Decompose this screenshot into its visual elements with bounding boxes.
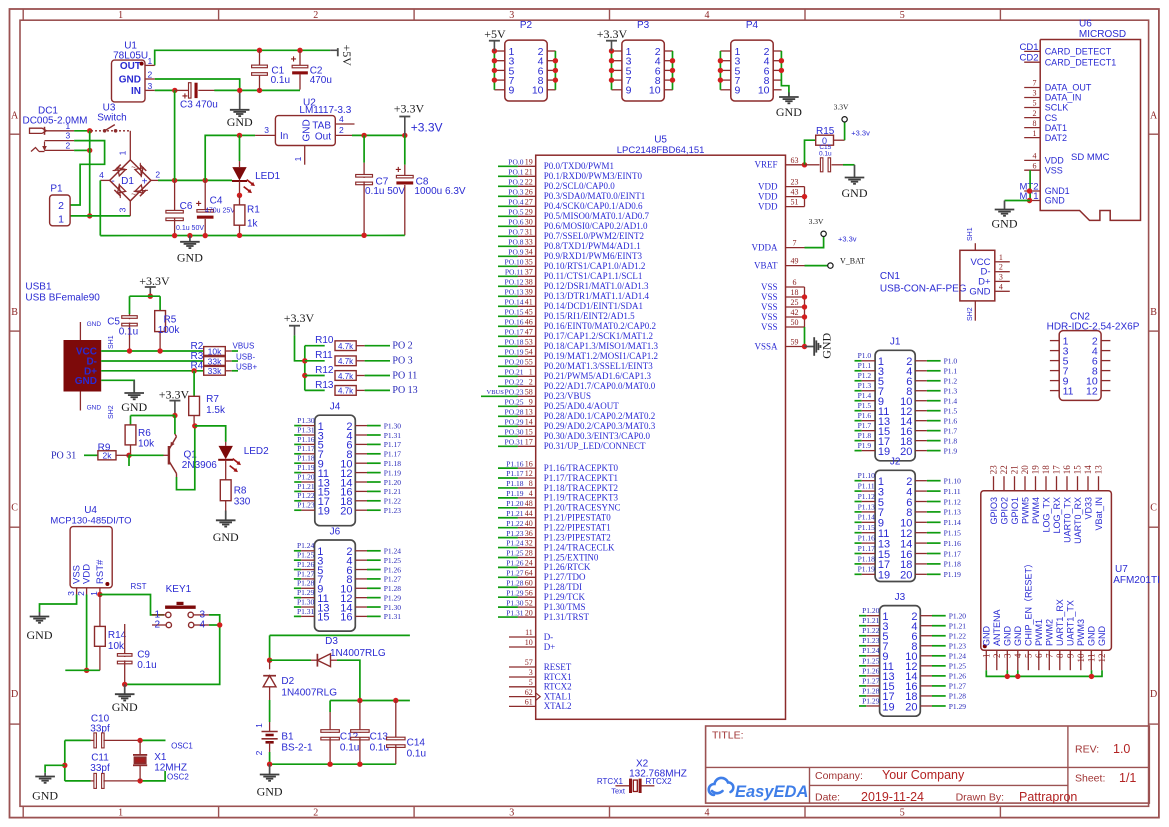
wire U2 In row — [240, 134, 256, 136]
capacitor C8 1000u 6.3V polarized — [404, 135, 406, 164]
junction U7 gnd pin11 — [1089, 674, 1094, 679]
svg-text:PO.23: PO.23 — [505, 388, 524, 397]
svg-text:P0.4/SCK0/CAP0.1/AD0.6: P0.4/SCK0/CAP0.1/AD0.6 — [544, 201, 643, 211]
wire C4 col up to U2 In row — [205, 135, 239, 180]
svg-text:28: 28 — [525, 549, 533, 558]
svg-text:P0.10/RTS1/CAP1.0/AD1.2: P0.10/RTS1/CAP1.0/AD1.2 — [544, 261, 646, 271]
wire C15 to GND — [843, 164, 855, 166]
junction D1 out C6 — [172, 178, 177, 183]
U7 pin 6 PWM1 — [1038, 650, 1040, 670]
svg-text:12: 12 — [1086, 386, 1098, 398]
svg-text:In: In — [280, 131, 288, 142]
svg-text:R1: R1 — [247, 205, 260, 216]
svg-text:P1.19: P1.19 — [944, 570, 962, 579]
svg-text:17: 17 — [525, 438, 533, 447]
svg-text:P1.2: P1.2 — [944, 377, 958, 386]
svg-text:P0.8/TXD1/PWM4/AD1.1: P0.8/TXD1/PWM4/AD1.1 — [544, 241, 641, 251]
svg-text:3: 3 — [509, 10, 514, 21]
junction VREF node — [802, 162, 807, 167]
svg-text:P1.27: P1.27 — [506, 569, 524, 578]
svg-text:R11: R11 — [315, 350, 333, 361]
U7 pin 13 VBat_IN — [1098, 476, 1100, 491]
DC1 pin 3 — [45, 140, 75, 142]
U7 pin 17 LOG_RX — [1056, 476, 1058, 491]
wire +5V rail — [155, 50, 330, 65]
svg-text:PWM2: PWM2 — [1045, 619, 1055, 646]
wire pullup bus — [304, 346, 306, 391]
svg-text:J1: J1 — [890, 337, 901, 348]
svg-text:11: 11 — [1063, 386, 1074, 398]
svg-text:PWM1: PWM1 — [1034, 619, 1044, 646]
junction In row LED1 — [237, 133, 242, 138]
svg-text:4: 4 — [200, 620, 206, 631]
svg-text:2019-11-24: 2019-11-24 — [861, 790, 924, 804]
svg-text:Company:: Company: — [815, 770, 863, 782]
wire U1 pin3 row to C2 — [155, 89, 175, 91]
junction VCC R5 — [157, 348, 162, 353]
capacitor C1 0.1u — [259, 50, 261, 65]
svg-text:470u 25V: 470u 25V — [205, 207, 235, 214]
svg-text:P1.4: P1.4 — [944, 397, 958, 406]
svg-text:PO 13: PO 13 — [392, 385, 417, 396]
svg-text:P1.10: P1.10 — [944, 477, 962, 486]
svg-text:17: 17 — [1052, 465, 1062, 475]
resistor R14 10k — [99, 595, 101, 627]
U5 pin 41 P0.14/DCD1/EINT1/SDA1 — [498, 305, 518, 307]
IC U1 78L05U — [112, 60, 146, 102]
U5 pin 6 VSS — [786, 286, 805, 288]
svg-text:P1.17: P1.17 — [944, 549, 962, 558]
CN2 pins 1 2 — [1050, 340, 1059, 342]
svg-text:Text: Text — [611, 787, 626, 796]
svg-text:GND: GND — [1087, 626, 1097, 647]
svg-text:SD MMC: SD MMC — [1071, 152, 1110, 163]
svg-text:P1.25: P1.25 — [384, 556, 402, 565]
U4 pin 2 — [86, 588, 88, 595]
svg-text:P1.21/PIPESTAT0: P1.21/PIPESTAT0 — [544, 513, 612, 523]
svg-text:9: 9 — [735, 85, 741, 97]
power port +5V at P2 — [489, 40, 500, 42]
svg-text:P0.21/PWM5/AD1.6/CAP1.3: P0.21/PWM5/AD1.6/CAP1.3 — [544, 371, 652, 381]
svg-text:LOG_TX: LOG_TX — [1041, 497, 1051, 533]
CN2 pins 5 6 — [1050, 360, 1059, 362]
svg-text:GND: GND — [27, 628, 53, 642]
svg-text:4.7k: 4.7k — [338, 387, 354, 396]
svg-text:P1.20: P1.20 — [297, 472, 315, 481]
svg-text:P1.21: P1.21 — [862, 616, 880, 625]
U7 pin 4 GND — [1017, 650, 1019, 670]
svg-text:P1.18: P1.18 — [506, 479, 524, 488]
svg-text:SH2: SH2 — [967, 307, 974, 321]
svg-text:21: 21 — [1010, 465, 1020, 474]
svg-text:3.3V: 3.3V — [809, 217, 824, 226]
junction C3 left — [172, 88, 177, 93]
svg-text:P1.26: P1.26 — [949, 672, 967, 681]
svg-text:UART1_RX: UART1_RX — [1055, 599, 1065, 646]
svg-text:P1.2: P1.2 — [858, 371, 872, 380]
svg-text:P1.25: P1.25 — [862, 656, 880, 665]
svg-text:R12: R12 — [315, 365, 334, 376]
svg-text:26: 26 — [525, 188, 533, 197]
svg-text:78L05U: 78L05U — [113, 50, 148, 61]
svg-text:27: 27 — [525, 198, 533, 207]
U6 pin 1 DAT2 — [1024, 137, 1040, 139]
svg-text:13: 13 — [1094, 465, 1104, 475]
svg-text:3: 3 — [66, 131, 71, 141]
svg-text:6: 6 — [1033, 161, 1037, 170]
svg-text:GND: GND — [119, 75, 141, 86]
U5 pin 47 P0.17/CAP1.2/SCK1/MAT1.2 — [498, 335, 518, 337]
U5 pin 53 P0.18/CAP1.3/MISO1/MAT1.3 — [498, 345, 518, 347]
junction rail gnd stem — [187, 233, 192, 238]
svg-text:P0.16/EINT0/MAT0.2/CAP0.2: P0.16/EINT0/MAT0.2/CAP0.2 — [544, 321, 656, 331]
U1 pin 1 — [145, 64, 155, 66]
svg-text:P1.24/TRACECLK: P1.24/TRACECLK — [544, 542, 615, 552]
svg-text:GND: GND — [32, 789, 58, 803]
svg-text:18: 18 — [1041, 465, 1051, 475]
svg-text:25: 25 — [791, 298, 799, 307]
svg-text:+: + — [395, 165, 401, 176]
svg-text:GND: GND — [302, 119, 313, 141]
svg-text:38: 38 — [525, 278, 533, 287]
svg-text:4.7k: 4.7k — [338, 357, 354, 366]
junction out row C7 — [361, 133, 366, 138]
svg-text:P1.28: P1.28 — [506, 578, 524, 587]
wire P1 pin1 row to D1 pin3 — [70, 215, 130, 217]
U5 pin 21 P0.1/RXD0/PWM3/EINT0 — [498, 175, 518, 177]
svg-text:LOG_RX: LOG_RX — [1052, 497, 1062, 534]
ruler column ticks — [22, 9, 24, 20]
CN2 pins 7 8 — [1050, 370, 1059, 372]
svg-text:5: 5 — [529, 678, 533, 687]
svg-text:PO.12: PO.12 — [505, 278, 524, 287]
svg-text:33pf: 33pf — [90, 763, 110, 774]
svg-text:P1.24: P1.24 — [949, 652, 967, 661]
wire U2 Out to +3.3V rail — [352, 134, 405, 136]
junction VCC C5 — [127, 348, 132, 353]
svg-text:2: 2 — [339, 125, 344, 135]
svg-text:+: + — [291, 55, 297, 66]
U5 pin 48 P1.20/TRACESYNC — [498, 507, 518, 509]
svg-text:GND: GND — [1097, 626, 1107, 647]
junction DC pin2 — [87, 148, 92, 153]
U6 pin 3 DATA_IN — [1024, 97, 1040, 99]
junction RST node — [97, 592, 102, 597]
U2 pin 3 In — [255, 134, 275, 136]
capacitor C3 470u polarized — [175, 89, 189, 91]
KEY1 pin 4 — [194, 624, 209, 626]
svg-text:51: 51 — [791, 198, 799, 207]
junction row-90 C3C1 — [237, 88, 242, 93]
wire OSC1 row — [140, 739, 165, 741]
svg-text:PO.11: PO.11 — [505, 268, 524, 277]
svg-text:P1.26/RTCK: P1.26/RTCK — [544, 562, 591, 572]
ground GND USB1 — [133, 380, 135, 393]
svg-text:0.1u: 0.1u — [137, 660, 156, 671]
svg-text:33pf: 33pf — [90, 724, 110, 735]
U5 pin 15 P0.30/AD0.3/EINT3/CAP0.0 — [498, 435, 518, 437]
wire +3.3V to C5 and R5 — [130, 295, 161, 297]
U5 pin 50 VSS — [786, 326, 805, 328]
svg-text:P0.18/CAP1.3/MISO1/MAT1.3: P0.18/CAP1.3/MISO1/MAT1.3 — [544, 341, 659, 351]
svg-text:0.1u 50V: 0.1u 50V — [365, 186, 405, 197]
svg-text:VD33: VD33 — [1083, 497, 1093, 520]
svg-text:RTCX2: RTCX2 — [646, 777, 673, 786]
svg-text:P1.24: P1.24 — [384, 547, 402, 556]
U7 pin 15 UART0_RX — [1077, 476, 1079, 491]
svg-text:57: 57 — [525, 658, 533, 667]
svg-text:2: 2 — [313, 10, 318, 21]
wire R12 to PO 11 — [365, 375, 390, 377]
svg-text:P0.1/RXD0/PWM3/EINT0: P0.1/RXD0/PWM3/EINT0 — [544, 171, 643, 181]
U4 pin 3 — [76, 588, 78, 595]
U5 pin 56 P1.29/TCK — [498, 596, 518, 598]
wire P2 left bus — [493, 51, 495, 90]
wire D+ row — [101, 370, 204, 372]
svg-text:C14: C14 — [407, 738, 426, 749]
IC U2 LM1117-3.3 — [275, 116, 335, 146]
U5 pin 19 P0.0/TXD0/PWM1 — [498, 165, 518, 167]
svg-text:5: 5 — [900, 10, 905, 21]
svg-text:P1.19: P1.19 — [858, 565, 876, 574]
U5 pin 18 VSS — [786, 296, 805, 298]
svg-text:-: - — [111, 176, 114, 187]
svg-text:54: 54 — [525, 348, 533, 357]
svg-text:+3.3v: +3.3v — [838, 235, 857, 244]
svg-text:P1.21: P1.21 — [506, 509, 524, 518]
svg-text:+5V: +5V — [340, 45, 354, 67]
svg-text:P1.17: P1.17 — [297, 444, 315, 453]
svg-text:PO.17: PO.17 — [505, 328, 524, 337]
svg-text:VSSA: VSSA — [754, 341, 778, 351]
power port +3.3V pullups — [289, 325, 300, 327]
wire OSC2 row — [140, 771, 165, 781]
svg-text:GPIO2: GPIO2 — [999, 497, 1009, 525]
svg-text:P1.16: P1.16 — [944, 539, 962, 548]
svg-text:33: 33 — [525, 238, 533, 247]
wire Q1 emitter to +3.3V — [174, 416, 176, 435]
svg-text:P0.12/DSR1/MAT1.0/AD1.3: P0.12/DSR1/MAT1.0/AD1.3 — [544, 281, 649, 291]
svg-text:P2: P2 — [520, 20, 533, 31]
U5 pin 24 P1.26/RTCK — [498, 566, 518, 568]
svg-text:2: 2 — [76, 591, 86, 596]
svg-text:2: 2 — [58, 200, 64, 212]
svg-text:+3.3V: +3.3V — [394, 102, 425, 116]
svg-text:P1.3: P1.3 — [858, 381, 872, 390]
svg-text:VSS: VSS — [761, 302, 778, 312]
svg-text:9: 9 — [509, 85, 515, 97]
wire ground rail bottom — [100, 234, 405, 236]
svg-text:UART0_RX: UART0_RX — [1073, 497, 1083, 544]
svg-text:P1.23/PIPESTAT2: P1.23/PIPESTAT2 — [544, 532, 611, 542]
svg-text:P1.27: P1.27 — [862, 676, 880, 685]
svg-text:RTCX1: RTCX1 — [597, 777, 624, 786]
wire P3 right bus — [672, 51, 674, 90]
U5 pin 12 P1.17/TRACEPKT1 — [498, 477, 518, 479]
svg-text:REV:: REV: — [1075, 744, 1099, 756]
U7 pin 9 UART1_TX — [1069, 650, 1071, 670]
resistor R1 1k — [239, 195, 241, 205]
svg-text:P1.23: P1.23 — [297, 501, 315, 510]
U6 pin MT1 GND — [1024, 200, 1040, 202]
svg-text:P1.11: P1.11 — [944, 487, 961, 496]
svg-text:USB-CON-AF-PEG: USB-CON-AF-PEG — [880, 284, 967, 295]
capacitor C12 0.1u — [329, 701, 331, 713]
svg-text:2: 2 — [148, 69, 153, 79]
svg-text:GND: GND — [75, 376, 97, 387]
svg-text:0.1u: 0.1u — [119, 327, 138, 338]
junction rail C1 — [257, 48, 262, 53]
svg-text:C9: C9 — [137, 650, 150, 661]
svg-text:1: 1 — [118, 807, 123, 818]
svg-text:10: 10 — [758, 85, 770, 97]
svg-text:B1: B1 — [281, 732, 294, 743]
U5 pin 4 P1.19/TRACEPKT3 — [498, 497, 518, 499]
U7 pin 7 PWM2 — [1048, 650, 1050, 670]
svg-text:PO.8: PO.8 — [508, 238, 523, 247]
U7 pin 21 GPIO1 — [1014, 476, 1016, 491]
svg-text:P0.6/MOSI0/CAP0.2/AD1.0: P0.6/MOSI0/CAP0.2/AD1.0 — [544, 221, 648, 231]
svg-text:TITLE:: TITLE: — [712, 730, 744, 742]
U6 pin CD1 CARD_DETECT — [1024, 50, 1040, 52]
svg-text:P1.5: P1.5 — [858, 401, 872, 410]
svg-text:GND: GND — [257, 785, 283, 799]
junction gnd rail C12 — [327, 762, 332, 767]
svg-text:PO.6: PO.6 — [508, 218, 523, 227]
svg-text:VSS: VSS — [761, 312, 778, 322]
svg-text:P1.16: P1.16 — [858, 534, 876, 543]
svg-text:P1.13: P1.13 — [944, 508, 962, 517]
svg-text:B: B — [11, 307, 18, 318]
svg-text:6: 6 — [793, 278, 797, 287]
U5 pin 29 P0.5/MISO0/MAT0.1/AD0.7 — [498, 215, 518, 217]
DC1 pin 2 — [45, 149, 75, 151]
svg-text:OSC2: OSC2 — [167, 772, 189, 781]
U5 pin 28 P1.25/EXTIN0 — [498, 556, 518, 558]
svg-text:GND: GND — [842, 186, 868, 200]
svg-text:52: 52 — [525, 598, 533, 607]
svg-text:D-: D- — [544, 632, 554, 642]
svg-text:GND: GND — [820, 332, 834, 358]
svg-text:35: 35 — [525, 258, 533, 267]
svg-text:VBUS: VBUS — [487, 389, 505, 396]
svg-text:P1.1: P1.1 — [858, 361, 872, 370]
svg-text:R13: R13 — [315, 380, 334, 391]
U5 pin 26 P0.3/SDA0/MAT0.0/EINT1 — [498, 195, 518, 197]
svg-text:20: 20 — [900, 570, 912, 582]
svg-text:D: D — [1150, 689, 1157, 700]
svg-text:VDD: VDD — [82, 564, 93, 584]
U7 pin 8 UART1_RX — [1059, 650, 1061, 670]
svg-text:46: 46 — [525, 318, 533, 327]
svg-text:P1.30: P1.30 — [297, 597, 315, 606]
svg-text:P1.17: P1.17 — [858, 544, 876, 553]
svg-text:PO.1: PO.1 — [508, 168, 523, 177]
resistor R11 4.7k — [305, 360, 325, 362]
svg-text:P1.17/TRACEPKT1: P1.17/TRACEPKT1 — [544, 473, 618, 483]
U5 pin 9 P0.25/AD0.4/AOUT — [498, 405, 518, 407]
svg-text:P1.22: P1.22 — [384, 497, 402, 506]
svg-text:+3.3V: +3.3V — [159, 388, 190, 402]
svg-text:C11: C11 — [91, 753, 109, 764]
svg-text:TAB: TAB — [312, 120, 331, 131]
U7 pin 2 ANTENA — [996, 650, 998, 670]
svg-text:2N3906: 2N3906 — [182, 460, 217, 471]
svg-text:PO.4: PO.4 — [508, 198, 523, 207]
junction rail C6 — [172, 233, 177, 238]
svg-text:CD2: CD2 — [1019, 53, 1038, 64]
svg-text:P0.22/AD1.7/CAP0.0/MAT0.0: P0.22/AD1.7/CAP0.0/MAT0.0 — [544, 381, 656, 391]
svg-text:PO.19: PO.19 — [505, 348, 524, 357]
U5 pin 57 RESET — [509, 666, 536, 668]
U7 pin 11 GND — [1090, 650, 1092, 670]
ground GND below R8 — [225, 511, 227, 521]
svg-text:Date:: Date: — [815, 792, 840, 804]
wire R9 to Q1 base — [129, 454, 164, 456]
svg-text:MICROSD: MICROSD — [1079, 29, 1126, 40]
svg-text:Out: Out — [315, 131, 331, 142]
svg-text:PO 3: PO 3 — [392, 356, 412, 367]
U1 pin 2 — [145, 78, 155, 80]
svg-text:P1.31: P1.31 — [384, 612, 402, 621]
svg-text:20: 20 — [900, 446, 912, 458]
svg-text:21: 21 — [525, 168, 533, 177]
wire R15 to 3.3V circle — [844, 122, 846, 140]
capacitor C2 470u polarized — [299, 50, 301, 65]
svg-text:330: 330 — [234, 496, 251, 507]
svg-text:CS: CS — [1045, 113, 1058, 123]
svg-text:3: 3 — [264, 125, 269, 135]
svg-text:CARD_DETECT: CARD_DETECT — [1045, 47, 1112, 57]
svg-text:P1: P1 — [50, 184, 63, 195]
svg-text:59: 59 — [791, 338, 799, 347]
junction DC pin1 — [87, 128, 92, 133]
svg-text:PO.25: PO.25 — [505, 398, 524, 407]
svg-text:P1.8: P1.8 — [858, 431, 872, 440]
svg-text:P1.28: P1.28 — [949, 692, 967, 701]
resistor R10 4.7k — [305, 345, 325, 347]
svg-text:12MHZ: 12MHZ — [154, 763, 187, 774]
svg-text:P1.15: P1.15 — [858, 523, 876, 532]
svg-text:PO.5: PO.5 — [508, 208, 523, 217]
ground GND below U1 pin2 wire — [239, 90, 241, 109]
svg-text:2: 2 — [1033, 109, 1037, 118]
svg-text:3: 3 — [118, 207, 128, 212]
U5 pin 44 P1.21/PIPESTAT0 — [498, 517, 518, 519]
svg-text:0.1u: 0.1u — [819, 151, 832, 158]
svg-text:P1.29: P1.29 — [384, 593, 402, 602]
U7 pin 12 GND — [1101, 650, 1103, 670]
svg-text:2: 2 — [999, 263, 1003, 272]
svg-text:U5: U5 — [654, 135, 667, 146]
power port +5V — [330, 49, 337, 51]
circle port 3.3V at VDDA — [821, 231, 826, 236]
wire DC1 pin3 net — [70, 141, 105, 205]
wire DC1 pin1 to switch — [74, 130, 91, 132]
U7 pin 14 VD33 — [1087, 476, 1089, 491]
svg-text:3: 3 — [1003, 653, 1013, 658]
CN2 pins 11 12 — [1050, 390, 1059, 392]
svg-text:U6: U6 — [1079, 19, 1092, 30]
svg-text:PO 2: PO 2 — [392, 341, 412, 352]
svg-text:P1.19: P1.19 — [297, 463, 315, 472]
svg-text:1: 1 — [529, 368, 533, 377]
D1 pin 3 bottom — [129, 201, 131, 216]
svg-text:+3.3V: +3.3V — [597, 27, 628, 41]
svg-text:B: B — [1150, 307, 1157, 318]
D1 pin 4 left — [100, 179, 109, 181]
junction R6 base row — [126, 453, 131, 458]
